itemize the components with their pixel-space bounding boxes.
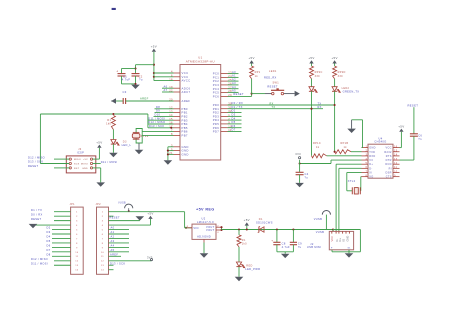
svg-text:GND: GND	[369, 147, 376, 150]
svg-text:RESET: RESET	[110, 216, 120, 220]
svg-text:VIN: VIN	[193, 226, 198, 230]
svg-text:7: 7	[365, 170, 367, 173]
svg-text:A2: A2	[232, 77, 236, 81]
svg-text:SW1: SW1	[273, 82, 280, 85]
svg-text:ICSP: ICSP	[77, 150, 84, 154]
svg-text:LED_PWR: LED_PWR	[245, 267, 260, 271]
svg-text:GND: GND	[82, 168, 88, 170]
svg-text:3V3: 3V3	[295, 152, 301, 156]
svg-text:LED_L: LED_L	[122, 143, 132, 147]
svg-text:4.7uF: 4.7uF	[122, 78, 131, 82]
svg-text:A7: A7	[164, 88, 168, 92]
svg-text:LED1: LED1	[269, 70, 277, 73]
svg-text:D4: D4	[232, 116, 236, 120]
svg-text:D1 / TX: D1 / TX	[31, 208, 42, 212]
svg-text:A1: A1	[232, 74, 236, 78]
svg-text:JP2: JP2	[96, 203, 102, 206]
svg-text:CH340G: CH340G	[374, 140, 386, 144]
svg-text:RP1C: RP1C	[313, 142, 321, 145]
svg-text:330: 330	[315, 75, 320, 78]
svg-text:RI: RI	[389, 167, 392, 170]
svg-text:A1: A1	[111, 230, 115, 234]
svg-text:16: 16	[394, 145, 398, 148]
svg-text:J3: J3	[78, 147, 82, 151]
svg-text:D6: D6	[47, 244, 51, 248]
svg-text:1k0: 1k0	[242, 242, 247, 245]
svg-text:12: 12	[101, 261, 105, 263]
svg-text:+5V: +5V	[147, 212, 153, 216]
svg-text:+: +	[116, 70, 118, 74]
svg-text:?u: ?u	[139, 78, 143, 82]
svg-text:XI: XI	[369, 172, 372, 175]
svg-text:C9: C9	[298, 242, 302, 246]
svg-text:VUSB: VUSB	[118, 203, 126, 205]
svg-text:XO: XO	[369, 176, 373, 179]
svg-text:D5: D5	[232, 120, 236, 124]
svg-text:14: 14	[394, 154, 398, 157]
svg-text:C8: C8	[282, 242, 286, 246]
svg-text:DTR: DTR	[386, 159, 392, 162]
svg-text:9: 9	[394, 174, 396, 177]
svg-text:+5V: +5V	[96, 141, 102, 145]
svg-text:+5V: +5V	[151, 44, 157, 48]
svg-text:D11 / MOSI: D11 / MOSI	[31, 261, 48, 265]
svg-text:SD101CWS: SD101CWS	[256, 220, 273, 224]
svg-text:D5: D5	[47, 239, 51, 243]
svg-text:RX: RX	[270, 102, 274, 105]
svg-text:D12 / MISO: D12 / MISO	[28, 155, 45, 159]
svg-text:D3: D3	[232, 113, 236, 117]
svg-text:D1 / TX: D1 / TX	[232, 105, 243, 109]
svg-text:D0 / RX: D0 / RX	[232, 101, 244, 105]
svg-text:D9: D9	[156, 109, 160, 113]
svg-text:RTS: RTS	[386, 155, 392, 158]
svg-text:PC6: PC6	[213, 95, 220, 99]
svg-text:DCD: DCD	[385, 163, 391, 166]
svg-text:12: 12	[75, 261, 79, 263]
svg-text:D2: D2	[232, 109, 236, 113]
svg-text:A0: A0	[232, 70, 236, 74]
svg-text:D13 / SCK: D13 / SCK	[110, 261, 125, 265]
svg-text:USB MINI: USB MINI	[307, 245, 321, 249]
svg-text:5: 5	[365, 162, 367, 165]
svg-text:A0: A0	[111, 226, 115, 230]
svg-text:+: +	[271, 239, 273, 243]
svg-text:D3: D3	[123, 141, 127, 144]
svg-text:13: 13	[75, 265, 79, 267]
svg-text:D0 / RX: D0 / RX	[31, 212, 43, 216]
svg-text:VUSB: VUSB	[314, 217, 322, 221]
svg-text:+5V: +5V	[308, 56, 314, 60]
svg-text:R1: R1	[107, 118, 111, 122]
svg-text:VUSB: VUSB	[316, 230, 324, 234]
svg-text:6: 6	[365, 166, 367, 169]
svg-text:14: 14	[101, 270, 105, 272]
svg-text:8: 8	[365, 174, 367, 177]
svg-text:D10: D10	[155, 113, 161, 117]
svg-text:1k0: 1k0	[106, 121, 111, 125]
svg-text:3V3: 3V3	[147, 255, 153, 259]
svg-text:VOUT: VOUT	[206, 228, 215, 232]
svg-text:11: 11	[101, 256, 104, 258]
svg-text:D-: D-	[369, 167, 372, 170]
svg-text:AREF: AREF	[140, 97, 149, 101]
svg-text:12: 12	[394, 162, 398, 165]
svg-text:RESET: RESET	[267, 84, 277, 88]
svg-text:TX: TX	[272, 106, 276, 109]
svg-text:VCC: VCC	[330, 236, 334, 242]
svg-text:ID: ID	[341, 239, 345, 242]
svg-text:JP1: JP1	[70, 203, 76, 206]
svg-text:AREF: AREF	[182, 99, 191, 103]
svg-text:GND: GND	[346, 236, 350, 242]
svg-text:VCC: VCC	[385, 147, 391, 150]
svg-text:GREEN_TX: GREEN_TX	[343, 90, 360, 94]
svg-text:RP2D: RP2D	[338, 71, 346, 74]
svg-text:1k: 1k	[255, 75, 259, 78]
svg-text:A3: A3	[111, 239, 115, 243]
svg-text:10: 10	[394, 170, 398, 173]
svg-text:D+: D+	[369, 163, 373, 166]
svg-text:11: 11	[75, 256, 78, 258]
svg-text:U2: U2	[201, 217, 205, 221]
svg-text:GND: GND	[182, 153, 189, 157]
svg-text:V3: V3	[369, 159, 373, 162]
svg-text:C6: C6	[418, 133, 422, 137]
svg-text:D12 / MISO: D12 / MISO	[148, 120, 165, 124]
svg-text:4: 4	[365, 158, 367, 161]
svg-text:D11 / MOSI: D11 / MOSI	[148, 116, 165, 120]
svg-text:A3: A3	[232, 81, 236, 85]
svg-text:RESET: RESET	[31, 217, 41, 221]
svg-text:CTS: CTS	[386, 176, 392, 179]
svg-text:XTL2: XTL2	[348, 179, 356, 183]
svg-text:D3: D3	[47, 230, 51, 234]
svg-text:4.7uF: 4.7uF	[282, 245, 290, 249]
svg-text:AVCC: AVCC	[182, 79, 191, 83]
svg-text:ADC7: ADC7	[182, 90, 191, 94]
svg-text:10: 10	[101, 252, 105, 254]
svg-text:1k: 1k	[316, 146, 320, 149]
svg-text:PB7: PB7	[182, 134, 188, 138]
svg-text:D7: D7	[47, 248, 51, 252]
svg-text:MOSI: MOSI	[81, 164, 88, 166]
svg-text:+5V: +5V	[331, 56, 337, 60]
svg-text:LM1117-5.0: LM1117-5.0	[197, 220, 214, 224]
svg-text:+5V: +5V	[83, 159, 88, 161]
svg-text:14: 14	[75, 270, 79, 272]
svg-text:RP1B: RP1B	[341, 142, 349, 145]
svg-text:TXD: TXD	[369, 151, 375, 154]
svg-text:D13 / SCK: D13 / SCK	[149, 124, 164, 128]
svg-text:10: 10	[75, 252, 79, 254]
svg-text:+5V: +5V	[244, 218, 250, 222]
svg-text:RED: RED	[246, 264, 252, 267]
svg-text:A4: A4	[232, 85, 236, 89]
svg-text:3: 3	[365, 154, 367, 157]
svg-text:+5V: +5V	[248, 56, 254, 60]
svg-text:C2: C2	[139, 74, 143, 78]
svg-text:13: 13	[101, 265, 105, 267]
svg-text:?u: ?u	[305, 175, 309, 179]
svg-text:D12 / MISO: D12 / MISO	[31, 257, 48, 261]
svg-text:ATMEGA328P-AU: ATMEGA328P-AU	[186, 59, 215, 63]
svg-text:A4: A4	[111, 244, 115, 248]
svg-text:RP1: RP1	[255, 71, 261, 74]
svg-text:?n: ?n	[418, 137, 422, 141]
svg-text:RXD: RXD	[369, 155, 375, 158]
svg-text:RED_RX: RED_RX	[264, 76, 277, 80]
svg-text:DSR: DSR	[385, 172, 391, 175]
svg-text:330: 330	[338, 75, 343, 78]
svg-text:RST: RST	[74, 168, 80, 170]
svg-text:AREF: AREF	[110, 253, 118, 257]
svg-text:D11 / MOSI: D11 / MOSI	[101, 160, 118, 164]
svg-text:?u: ?u	[298, 245, 302, 249]
svg-text:RESET: RESET	[233, 92, 243, 96]
svg-text:S1: S1	[348, 247, 352, 249]
svg-text:+5V: +5V	[398, 124, 404, 128]
svg-text:2: 2	[365, 150, 367, 153]
svg-text:ADJ/GND: ADJ/GND	[197, 234, 211, 238]
svg-text:SCK: SCK	[74, 164, 80, 166]
svg-text:C4: C4	[305, 172, 309, 176]
svg-text:D6: D6	[232, 124, 236, 128]
svg-text:A6: A6	[164, 84, 168, 88]
svg-text:PD7: PD7	[213, 130, 220, 134]
svg-text:RX: RX	[318, 106, 322, 109]
svg-text:D8: D8	[156, 105, 160, 109]
svg-text:RP2C: RP2C	[315, 71, 323, 74]
svg-text:RESET: RESET	[28, 164, 38, 168]
svg-text:D4: D4	[47, 235, 51, 239]
svg-text:15: 15	[394, 150, 398, 153]
svg-text:A5: A5	[111, 248, 115, 252]
svg-text:+5V REG: +5V REG	[196, 207, 215, 211]
svg-text:13: 13	[394, 158, 398, 161]
svg-text:D13 / SCK: D13 / SCK	[28, 160, 43, 164]
svg-text:D7: D7	[232, 128, 236, 132]
svg-text:D8: D8	[47, 253, 51, 257]
svg-text:MISO: MISO	[74, 159, 81, 161]
svg-text:R232: R232	[384, 151, 392, 154]
svg-text:11: 11	[394, 166, 398, 169]
svg-text:C1: C1	[123, 74, 127, 78]
svg-text:1: 1	[365, 145, 367, 148]
svg-text:C3: C3	[123, 90, 127, 94]
svg-text:1k: 1k	[344, 146, 348, 149]
svg-text:RESET: RESET	[408, 103, 419, 107]
svg-text:D2: D2	[47, 226, 51, 230]
svg-text:TX: TX	[318, 102, 322, 105]
svg-text:A2: A2	[111, 235, 115, 239]
